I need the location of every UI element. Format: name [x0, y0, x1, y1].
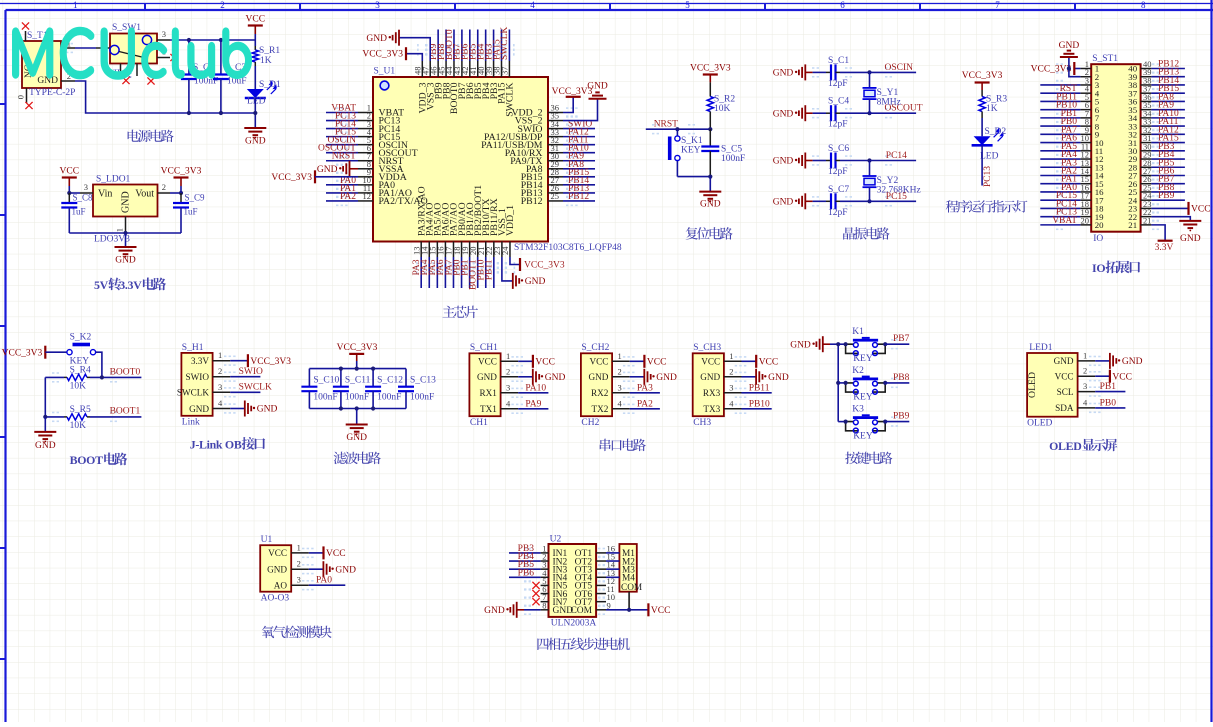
capacitor S_C6 12pF	[826, 160, 831, 162]
svg-text:TX3: TX3	[703, 404, 720, 414]
switch SW1 left pin 2	[96, 47, 110, 49]
no-ERC marks U2 pins 5-7	[532, 582, 539, 589]
svg-text:8: 8	[1141, 0, 1146, 10]
svg-text:PB12: PB12	[521, 196, 543, 207]
svg-text:VCC: VCC	[1112, 372, 1132, 382]
svg-text:PA2: PA2	[637, 399, 653, 409]
net label BOOT1 wire	[90, 416, 141, 418]
svg-text:3: 3	[729, 382, 733, 392]
svg-text:KEY: KEY	[853, 354, 873, 364]
net label OSCIN wire	[870, 71, 917, 73]
svg-text:IO: IO	[1093, 234, 1103, 244]
chip bottom net wires and labels	[420, 257, 422, 288]
svg-text:S_H1: S_H1	[182, 343, 204, 353]
power VCC at IO pin 23	[1151, 207, 1188, 209]
svg-text:3.3V: 3.3V	[1155, 243, 1174, 253]
svg-text:VCC: VCC	[478, 357, 497, 367]
svg-text:VCC: VCC	[589, 357, 608, 367]
svg-text:GND: GND	[700, 200, 721, 210]
svg-text:VCC: VCC	[535, 358, 555, 368]
power VCC_3V3 at chip pin 36	[563, 97, 573, 113]
section title stepper motor	[537, 638, 629, 651]
connector S_T1 TYPE-C-2P	[22, 41, 61, 88]
connector S_H1 J-Link	[181, 353, 212, 416]
section title power circuit	[128, 130, 174, 143]
svg-text:SWCLK: SWCLK	[239, 383, 272, 393]
wire VCC rail top	[170, 39, 255, 41]
svg-text:12pF: 12pF	[828, 120, 848, 130]
svg-text:3.3V: 3.3V	[119, 278, 142, 292]
switch SW1 pin 1 unconnected	[157, 57, 170, 59]
svg-text:CH2: CH2	[581, 418, 599, 428]
connector S_CH2	[581, 353, 612, 416]
svg-text:8: 8	[542, 600, 546, 610]
switch S_SW1	[110, 34, 157, 64]
power VCC_3V3 at IO pin 1	[1074, 68, 1080, 70]
IO header pin stubs left	[1080, 68, 1091, 70]
svg-text:3: 3	[618, 382, 622, 392]
svg-text:3.3V: 3.3V	[191, 356, 209, 366]
IO header pin stubs right	[1141, 68, 1152, 70]
svg-text:12: 12	[363, 191, 372, 201]
ground GND at chip pin 8 VSSA	[349, 161, 351, 177]
chip bottom pin stubs and numbers	[420, 242, 422, 258]
svg-text:S_C11: S_C11	[345, 376, 371, 386]
svg-text:PB9: PB9	[893, 412, 910, 422]
svg-text:K3: K3	[852, 405, 864, 415]
svg-text:M4: M4	[622, 574, 635, 584]
svg-text:NRST: NRST	[654, 120, 678, 130]
power port VCC	[248, 24, 263, 26]
U1 pin 3	[291, 584, 309, 586]
pin 1 indicator circle	[380, 81, 389, 90]
svg-text:S_K1: S_K1	[681, 136, 703, 146]
ground GND LDO	[115, 246, 137, 248]
net label PB0 wire	[1095, 407, 1125, 409]
svg-text:1: 1	[1083, 350, 1087, 360]
svg-text:PC14: PC14	[886, 151, 907, 161]
ground GND at IO pin 2	[1069, 57, 1081, 77]
wire T1 pin1 to switch	[75, 47, 96, 49]
resistor S_R2 10K	[709, 82, 711, 96]
net label BOOT0 wire	[90, 376, 141, 378]
svg-text:100nF: 100nF	[345, 393, 369, 403]
svg-text:2: 2	[729, 366, 733, 376]
svg-text:S_D2: S_D2	[985, 127, 1007, 137]
filter top rail wire	[309, 368, 406, 370]
svg-text:12pF: 12pF	[828, 208, 848, 218]
svg-text:5V: 5V	[94, 278, 109, 292]
capacitor S_C5 100nF	[709, 129, 711, 146]
svg-text:GND: GND	[1059, 41, 1080, 51]
ground GND filter	[356, 409, 358, 425]
S_CH1 pin 1	[501, 360, 519, 362]
svg-text:2: 2	[1083, 366, 1087, 376]
svg-text:S_C4: S_C4	[828, 97, 849, 107]
svg-text:KEY: KEY	[853, 431, 873, 441]
module U1 AO-O3 oxygen sensor	[260, 545, 291, 592]
svg-text:9: 9	[607, 600, 611, 610]
svg-text:1: 1	[506, 351, 510, 361]
svg-text:SWIO: SWIO	[186, 372, 210, 382]
svg-text:VCC: VCC	[759, 358, 779, 368]
svg-text:LED1: LED1	[1029, 343, 1052, 353]
svg-text:1uF: 1uF	[184, 207, 198, 217]
svg-text:20: 20	[1081, 215, 1090, 225]
svg-text:TYPE-C-2P: TYPE-C-2P	[29, 88, 75, 98]
svg-text:RX1: RX1	[480, 388, 498, 398]
svg-text:VCC: VCC	[60, 167, 80, 177]
svg-text:S_Y2: S_Y2	[877, 176, 899, 186]
connector S_CH3	[693, 353, 724, 416]
section title main chip	[443, 306, 479, 319]
svg-text:100nF: 100nF	[410, 393, 434, 403]
svg-text:GND: GND	[587, 82, 608, 92]
net label PC14 wire	[870, 160, 917, 162]
svg-text:BOOT: BOOT	[70, 453, 103, 467]
svg-text:S_C5: S_C5	[721, 145, 742, 155]
svg-text:KEY: KEY	[853, 393, 873, 403]
svg-text:VCC: VCC	[647, 358, 667, 368]
net label PB8 wire	[885, 382, 909, 384]
power port VCC_3V3 LDO output	[174, 176, 189, 178]
svg-text:GND: GND	[257, 405, 278, 415]
section title serial circuit	[600, 439, 646, 452]
capacitor S_C12 100nF	[372, 369, 374, 387]
svg-text:PA3: PA3	[637, 383, 653, 393]
svg-text:COM: COM	[570, 606, 592, 616]
U2 left pin stubs	[541, 552, 549, 554]
ground GND at U1 pin 2	[309, 568, 324, 570]
svg-text:TX1: TX1	[480, 404, 497, 414]
switch SW1 throw contact	[142, 35, 151, 44]
svg-text:S_CH3: S_CH3	[693, 343, 721, 353]
svg-text:S_K2: S_K2	[70, 333, 92, 343]
svg-text:VCC_3V3: VCC_3V3	[1031, 65, 1072, 75]
svg-text:8MHz: 8MHz	[877, 98, 901, 108]
svg-text:GND: GND	[346, 433, 367, 443]
switch SW1 lever	[119, 52, 148, 59]
LED1 pin 4	[1078, 407, 1096, 409]
svg-text:Link: Link	[182, 418, 200, 428]
section title crystal circuit	[843, 227, 890, 240]
wire R4 left to GND bus	[44, 377, 46, 417]
sheet border frame	[0, 3, 1213, 5]
LDO pin 2	[158, 192, 171, 194]
wire cap C3 bottom	[220, 79, 222, 113]
section title oxygen sensor	[262, 626, 332, 639]
switch SW1 pole contact	[110, 45, 119, 54]
ground GND at H1 pin 4	[230, 408, 245, 410]
S_CH1 pin 2	[501, 376, 519, 378]
svg-text:10K: 10K	[714, 104, 731, 114]
S_CH3 pin 4	[724, 408, 742, 410]
U2 input net wires PB3-PB6	[509, 552, 541, 554]
ground GND reset	[699, 191, 721, 193]
pin 1 of T1	[61, 47, 75, 49]
svg-text:PB1: PB1	[1100, 382, 1117, 392]
power VCC_3V3 at chip pin 48	[406, 54, 422, 61]
ground GND BOOT	[44, 417, 46, 432]
svg-text:2: 2	[220, 0, 225, 10]
wire key K2 to BOOT0 node	[96, 352, 102, 377]
power VCC_3V3 at H1 pin 1	[230, 360, 248, 362]
svg-text:4: 4	[530, 0, 535, 10]
wire COM to VCC	[606, 609, 648, 611]
svg-text:OLED: OLED	[1027, 419, 1052, 429]
LED S_D1	[247, 89, 264, 98]
svg-text:VCC_3V3: VCC_3V3	[271, 173, 312, 183]
svg-text:ULN2003A: ULN2003A	[551, 619, 597, 629]
svg-text:12pF: 12pF	[828, 167, 848, 177]
S_CH2 pin 2	[612, 376, 630, 378]
LDO pin 3	[69, 192, 80, 194]
chip top net wires and labels	[437, 30, 439, 62]
svg-text:BOOT0: BOOT0	[110, 368, 141, 378]
svg-text:VCC: VCC	[701, 357, 720, 367]
svg-text:VCC_3V3: VCC_3V3	[690, 64, 731, 74]
wire cap C2 top	[188, 40, 190, 75]
svg-text:2: 2	[506, 366, 510, 376]
chip left net wires and labels	[326, 112, 358, 114]
chip top pin stubs and numbers	[421, 61, 423, 77]
svg-text:3: 3	[506, 382, 510, 392]
svg-text:VCC: VCC	[1191, 205, 1211, 215]
svg-text:GND: GND	[1180, 234, 1201, 244]
display module LED1 OLED	[1027, 353, 1078, 417]
svg-text:GND: GND	[545, 373, 566, 383]
svg-text:PB12: PB12	[568, 192, 589, 202]
chip left pin stubs and numbers	[358, 112, 373, 114]
power VCC at LED1 pin 2	[1095, 375, 1110, 377]
power VCC_3V3 at chip pin 24	[510, 257, 520, 265]
capacitor S_C9 1uF	[180, 193, 182, 203]
crystal S_Y1 8MHz	[869, 72, 871, 88]
net label PB1 wire	[1095, 391, 1125, 393]
svg-text:GND: GND	[335, 565, 356, 575]
svg-text:6: 6	[840, 0, 845, 10]
wires U2 outputs to motor connector	[606, 552, 619, 554]
svg-text:21: 21	[1143, 215, 1152, 225]
svg-text:100nF: 100nF	[377, 393, 401, 403]
svg-text:2: 2	[218, 366, 222, 376]
wire S_C7 to crystal node	[840, 200, 870, 202]
svg-text:S_CH1: S_CH1	[470, 343, 498, 353]
resistor S_R4 10K	[45, 376, 64, 378]
LED S_D2	[974, 136, 991, 145]
svg-text:GND: GND	[773, 198, 794, 208]
svg-text:10K: 10K	[70, 382, 87, 392]
svg-text:3: 3	[162, 29, 166, 39]
svg-text:S_R4: S_R4	[70, 366, 91, 376]
IO header left net wires	[1040, 84, 1080, 86]
svg-text:S_C12: S_C12	[377, 376, 403, 386]
svg-text:GND: GND	[35, 441, 56, 451]
svg-text:RX2: RX2	[591, 388, 609, 398]
svg-text:VCC: VCC	[268, 548, 287, 558]
net label SWIO wire	[230, 376, 260, 378]
svg-text:GND: GND	[700, 372, 720, 382]
power port VCC_3V3 BOOT	[44, 346, 46, 359]
svg-text:S_Y1: S_Y1	[877, 88, 899, 98]
svg-text:VBAT: VBAT	[1052, 216, 1077, 226]
svg-text:GND: GND	[773, 157, 794, 167]
svg-text:2: 2	[618, 366, 622, 376]
LED1 pin 1	[1078, 360, 1096, 362]
svg-text:0: 0	[16, 95, 26, 99]
svg-text:OSCIN: OSCIN	[885, 63, 914, 73]
svg-text:PB7: PB7	[893, 334, 910, 344]
svg-text:1: 1	[618, 351, 622, 361]
power 3.3V at IO pin 21	[1151, 225, 1165, 241]
svg-text:S_C10: S_C10	[313, 376, 339, 386]
ground GND S_C6	[804, 153, 806, 169]
svg-text:S_LDO1: S_LDO1	[96, 175, 131, 185]
svg-text:S_C13: S_C13	[410, 376, 436, 386]
svg-text:U1: U1	[261, 535, 273, 545]
svg-text:S_ST1: S_ST1	[1092, 54, 1118, 64]
svg-text:GND: GND	[790, 340, 811, 350]
svg-text:LED: LED	[247, 97, 266, 107]
no-ERC mark on T1 NC pin	[22, 22, 29, 29]
resistor S_R3 1K	[981, 90, 983, 97]
svg-text:S_C7: S_C7	[828, 185, 849, 195]
driver U2 ULN2003A	[549, 544, 597, 617]
svg-text:VCC_3V3: VCC_3V3	[2, 348, 43, 358]
svg-text:TX2: TX2	[592, 404, 609, 414]
svg-text:IO: IO	[1092, 261, 1105, 275]
power VCC_3V3 to chip pin 9 VDDA	[314, 170, 316, 183]
ground GND at LED1 pin 1	[1095, 360, 1110, 362]
svg-text:PB0: PB0	[1100, 398, 1117, 408]
capacitor S_C3 10uF	[213, 73, 229, 75]
U1 pin 1	[291, 552, 309, 554]
svg-text:GND: GND	[245, 137, 266, 147]
svg-text:U2: U2	[550, 535, 562, 545]
svg-text:SWCLK: SWCLK	[177, 388, 210, 398]
svg-text:S_SW1: S_SW1	[112, 23, 141, 33]
svg-text:SWIO: SWIO	[239, 367, 263, 377]
svg-text:S_R3: S_R3	[986, 95, 1007, 105]
wire R3 to LED D2	[981, 118, 983, 136]
key K1 KEY	[838, 343, 845, 345]
wire key to cap bottom junction	[677, 176, 710, 178]
svg-text:AO: AO	[274, 581, 288, 591]
chip right net wires and labels	[563, 128, 595, 130]
key S_K1 KEY	[676, 129, 678, 135]
capacitor S_C7 12pF	[826, 200, 831, 202]
net label NRST wire	[646, 128, 711, 130]
svg-text:CH1: CH1	[470, 418, 488, 428]
wire S_C4 to crystal node	[840, 112, 870, 114]
S_CH1 pin 3	[501, 392, 519, 394]
svg-text:PB6: PB6	[518, 568, 535, 578]
svg-text:VDD_1: VDD_1	[505, 205, 516, 236]
svg-text:5: 5	[685, 0, 690, 10]
svg-text:SWCLK: SWCLK	[505, 83, 516, 117]
ground GND at U2 pin 8	[516, 602, 518, 618]
crystal S_Y2 32.768KHz	[869, 161, 871, 177]
svg-text:K1: K1	[852, 327, 864, 337]
svg-text:32.768KHz: 32.768KHz	[877, 186, 921, 196]
key S_K2 KEY	[67, 350, 72, 355]
svg-text:2: 2	[297, 559, 301, 569]
svg-text:4: 4	[729, 398, 734, 408]
ground GND at chip pin 47	[399, 38, 430, 61]
svg-text:VCC: VCC	[651, 606, 671, 616]
section title program run LED	[946, 200, 1028, 213]
IO header right net wires	[1151, 68, 1185, 70]
svg-text:KEY: KEY	[681, 146, 701, 156]
svg-text:1K: 1K	[986, 104, 998, 114]
svg-text:3: 3	[1083, 381, 1087, 391]
microcontroller S_U1 STM32F103C8T6_LQFP48	[373, 77, 548, 242]
U2 right pin stubs	[596, 552, 606, 554]
net label PA0 wire	[309, 584, 346, 586]
section title key circuit	[845, 452, 892, 465]
svg-text:VCC_3V3: VCC_3V3	[362, 50, 403, 60]
svg-text:VCC_3V3: VCC_3V3	[524, 261, 565, 271]
svg-text:GND: GND	[768, 373, 789, 383]
svg-text:S_R5: S_R5	[70, 405, 91, 415]
capacitor S_C8 1uF	[68, 193, 70, 203]
ground GND S_C7	[804, 193, 806, 209]
svg-text:PB11: PB11	[485, 259, 495, 280]
key bus wire	[837, 344, 839, 421]
wire T1 pin2 down to ground rail	[75, 81, 254, 113]
svg-text:3: 3	[218, 382, 222, 392]
svg-text:S_R1: S_R1	[259, 46, 280, 56]
svg-text:VCC: VCC	[246, 15, 266, 25]
svg-text:1: 1	[729, 351, 733, 361]
key K3 KEY	[838, 421, 845, 423]
net label PB9 wire	[885, 421, 909, 423]
svg-text:PC13: PC13	[983, 166, 993, 187]
MCUclub logo	[13, 28, 251, 79]
capacitor S_C11 100nF	[340, 369, 342, 387]
svg-text:GND: GND	[115, 256, 136, 266]
svg-text:VCC_3V3: VCC_3V3	[337, 343, 378, 353]
svg-text:GND: GND	[317, 165, 338, 175]
svg-text:PA10: PA10	[525, 383, 546, 393]
S_CH2 pin 4	[612, 408, 630, 410]
filter bottom rail wire	[309, 408, 406, 410]
capacitor S_C1 12pF	[826, 71, 831, 73]
svg-text:Vout: Vout	[135, 189, 154, 200]
svg-text:1K: 1K	[260, 56, 272, 66]
svg-text:OLED: OLED	[1049, 439, 1081, 453]
wire cap C3 top	[220, 40, 222, 75]
svg-text:OLED: OLED	[1027, 372, 1038, 398]
svg-text:AO-O3: AO-O3	[261, 594, 290, 604]
ground GND S_C1	[804, 64, 806, 80]
ground GND at chip pin 23	[502, 257, 513, 281]
ground rail wire LDO	[69, 232, 181, 234]
svg-text:GND: GND	[656, 373, 677, 383]
svg-text:VCC: VCC	[326, 549, 346, 559]
pin 2 of T1	[61, 80, 75, 82]
svg-text:PB8: PB8	[893, 373, 910, 383]
svg-text:PB10: PB10	[749, 399, 770, 409]
svg-text:BOOT1: BOOT1	[110, 407, 141, 417]
svg-text:25: 25	[551, 191, 560, 201]
svg-text:100nF: 100nF	[721, 154, 745, 164]
svg-text:1: 1	[297, 542, 301, 552]
section title reset circuit	[686, 227, 733, 240]
net label SWCLK wire	[230, 391, 260, 393]
connector S_ST1 IO header	[1091, 64, 1140, 232]
svg-text:S_C6: S_C6	[828, 144, 849, 154]
